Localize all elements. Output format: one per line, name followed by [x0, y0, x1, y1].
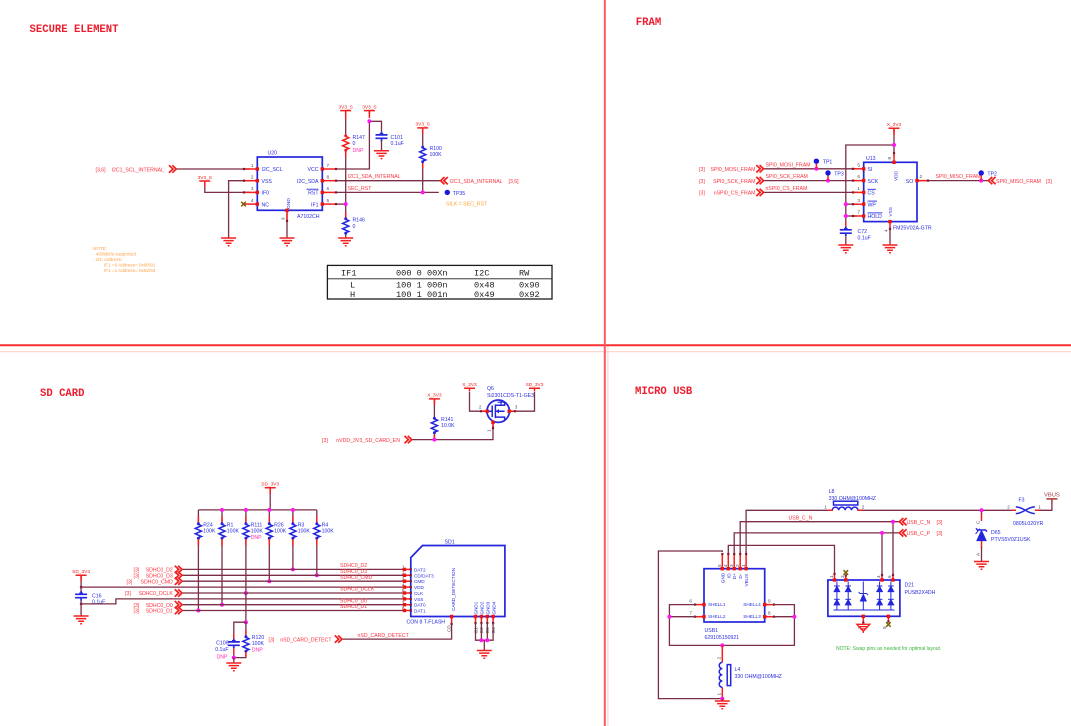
resistor R3 100K [290, 522, 296, 539]
resistor R141 10.0K [431, 417, 437, 434]
junction TP2 [979, 179, 983, 183]
chevron input SDHC0_D3 [175, 572, 182, 579]
svg-text:6: 6 [327, 186, 330, 191]
power SD_3V3 rail [261, 482, 279, 491]
U20 pin 2 stub [243, 179, 259, 182]
wire D65 to ground [981, 541, 983, 548]
svg-text:2: 2 [862, 505, 865, 510]
junction R3/SDHC0_D2 [291, 567, 295, 571]
fuse F3 0805L020YR [1016, 507, 1035, 514]
svg-text:VBUS: VBUS [1044, 493, 1060, 499]
wire C106 to ground node [233, 648, 235, 657]
wire VDD row to connector [81, 586, 404, 588]
svg-text:4: 4 [723, 564, 728, 567]
resistor R146 0 [343, 217, 349, 234]
svg-text:SD CARD: SD CARD [40, 388, 85, 400]
wire I2C1_SDA_INTERNAL net [336, 180, 441, 182]
resistor R120 100K DNP [243, 635, 249, 652]
junction VCC/3V3_S [367, 119, 371, 123]
svg-text:X_3V3: X_3V3 [887, 122, 902, 128]
svg-text:SHELL1: SHELL1 [708, 602, 726, 607]
svg-text:SDHC0_DCLK: SDHC0_DCLK [340, 586, 375, 592]
svg-text:100K: 100K [430, 152, 443, 158]
I2C address table [327, 265, 552, 299]
svg-text:VSS: VSS [414, 597, 423, 602]
ground at D65 [974, 562, 989, 570]
wire ground bus to ground [483, 640, 485, 650]
svg-text:USB_C_N: USB_C_N [907, 520, 931, 526]
svg-text:IF1: IF1 [341, 269, 356, 279]
wire VDD rail down left side [846, 145, 894, 222]
svg-text:SD_3V3: SD_3V3 [72, 569, 90, 575]
wire R24 to bus row [197, 539, 199, 611]
USB1 top pin stub [733, 553, 736, 571]
Q6 pin 3 stub [508, 410, 517, 413]
wire SHELL2 to rail [669, 616, 695, 618]
chevron input SDHC0_DCLK [175, 589, 182, 596]
svg-text:L8: L8 [829, 489, 835, 495]
svg-text:3: 3 [251, 186, 254, 191]
svg-text:SO: SO [906, 179, 914, 185]
wire R146 to ground [345, 234, 347, 238]
wire rail to HOLD pin 7 [846, 215, 857, 217]
svg-text:0x49: 0x49 [474, 290, 495, 300]
svg-text:R24: R24 [203, 522, 213, 528]
power X_3V3 at Q6 [462, 382, 477, 391]
U13 pin 6 stub [852, 179, 866, 182]
resistor R4 100K [314, 522, 320, 539]
test point TP3 [825, 170, 844, 180]
junction L4/GND loop [720, 697, 724, 701]
svg-text:0.1uF: 0.1uF [215, 647, 228, 653]
U20 pin 5 stub [321, 202, 338, 205]
wire rail to WP pin 3 [846, 203, 857, 205]
chevron input nSD_CARD_DETECT [335, 635, 342, 642]
ESD array D21 PUSB2X4DH [828, 580, 900, 616]
ground at U20 pin 9 [280, 238, 295, 246]
wire VSS row jog to ground net [81, 599, 404, 604]
svg-text:3V3_S: 3V3_S [198, 175, 212, 181]
svg-text:R26: R26 [274, 522, 284, 528]
svg-text:SEC_RST: SEC_RST [348, 186, 373, 192]
svg-text:[3,6]: [3,6] [509, 179, 520, 185]
svg-text:IF1 =1 Address= 0x92/93: IF1 =1 Address= 0x92/93 [104, 268, 156, 273]
chevron input SDHC0_D1 [175, 607, 182, 614]
wire USB_C_P to D21 pin 4 [881, 533, 883, 575]
capacitor C72 0.1uF [840, 227, 852, 237]
resistor R147 0 DNP [343, 134, 349, 151]
U20 pin 9 GND stub [285, 209, 288, 222]
junction USB_C_P/D21 [880, 531, 884, 535]
svg-text:SECURE ELEMENT: SECURE ELEMENT [30, 24, 120, 36]
wire shell rails [669, 605, 794, 646]
svg-text:6: 6 [887, 575, 892, 578]
no-connect X on U20 pin 4 [241, 202, 246, 207]
test point TP35 [445, 190, 466, 197]
junction X_3V3 rail [892, 143, 896, 147]
svg-text:C16: C16 [92, 593, 102, 599]
chevron input nSPI0_CS_FRAM [756, 189, 763, 196]
svg-text:ID: ID [726, 573, 731, 578]
wire nSPI0_CS_FRAM to CS [763, 191, 857, 193]
svg-text:SD_3V3: SD_3V3 [261, 482, 279, 488]
svg-text:2: 2 [479, 405, 482, 410]
wire R4 to bus row [316, 539, 318, 575]
wire 3V3_S to R100 [422, 131, 424, 147]
D21 pin 5 stub [887, 615, 890, 623]
resistor R24 100K [195, 522, 201, 539]
svg-text:SPI0_SCK_FRAM: SPI0_SCK_FRAM [766, 174, 808, 180]
svg-text:X_3V3: X_3V3 [427, 393, 442, 399]
SD1 GND3 pin stub [486, 615, 489, 624]
svg-text:VSS: VSS [888, 207, 893, 216]
svg-text:nSD_CARD_DETECT: nSD_CARD_DETECT [280, 638, 332, 644]
svg-text:2: 2 [735, 564, 740, 567]
wire to C106 [234, 622, 246, 638]
USB1 top pin stub [721, 553, 724, 571]
wire R1 to bus row [221, 539, 223, 605]
notes text block [93, 246, 156, 273]
chevron output I2C1_SDA_INTERNAL [441, 177, 448, 184]
USB1 top pin stub [744, 553, 747, 571]
SD1 pin stub VSS [403, 597, 412, 600]
svg-text:SCK: SCK [868, 179, 879, 185]
wire rail to R1 [221, 510, 223, 523]
svg-text:nVDD_3V3_SD_CARD_EN: nVDD_3V3_SD_CARD_EN [336, 438, 400, 444]
ground at C101 [374, 151, 389, 159]
svg-text:GND1: GND1 [474, 601, 479, 614]
svg-text:1: 1 [1038, 505, 1041, 510]
ground at VSS [221, 238, 236, 246]
wire junction to R146 [345, 204, 347, 218]
svg-text:SPI0_MOSI_FRAM: SPI0_MOSI_FRAM [766, 162, 811, 168]
svg-text:330 OHM@100MHZ: 330 OHM@100MHZ [829, 496, 876, 502]
U20 pin 6 stub [321, 191, 338, 194]
svg-text:100K: 100K [298, 529, 311, 535]
junction on pull-up rail [244, 508, 248, 512]
junction ground bus [479, 638, 483, 642]
svg-text:100 1 001n: 100 1 001n [396, 290, 448, 300]
svg-text:SPI0_MISO_FRAM: SPI0_MISO_FRAM [996, 179, 1041, 185]
svg-text:FRAM: FRAM [636, 17, 661, 29]
svg-text:629105150921: 629105150921 [705, 635, 740, 641]
svg-text:[3,6]: [3,6] [96, 167, 107, 173]
chevron input SDHC0_CMD [175, 578, 182, 585]
svg-text:nSPI0_CS_FRAM: nSPI0_CS_FRAM [766, 186, 808, 192]
svg-text:SDHC0_DCLK: SDHC0_DCLK [138, 591, 173, 597]
svg-text:SDHC0_D1: SDHC0_D1 [146, 609, 173, 615]
svg-text:RST: RST [308, 191, 319, 197]
svg-text:3V3_S: 3V3_S [415, 122, 429, 128]
svg-text:7: 7 [327, 163, 330, 168]
svg-text:R141: R141 [441, 417, 454, 423]
svg-text:C101: C101 [391, 135, 404, 141]
sheet border faint horizontal line [0, 351, 1071, 353]
svg-text:1: 1 [829, 575, 834, 578]
svg-text:PTVS5V0Z1USK: PTVS5V0Z1USK [991, 537, 1031, 543]
chevron output SPI0_MISO_FRAM [988, 177, 995, 184]
svg-text:6: 6 [689, 598, 692, 603]
wire junction to R120 [245, 622, 247, 636]
D21 pin 1 stub [833, 573, 836, 582]
svg-text:Si2301CDS-T1-GE3: Si2301CDS-T1-GE3 [487, 393, 534, 399]
svg-text:1: 1 [251, 163, 254, 168]
sheet border faint vertical line [607, 345, 609, 726]
svg-text:- 400kbit/s supported: - 400kbit/s supported [93, 252, 136, 257]
junction on pull-up rail [220, 508, 224, 512]
svg-text:I2C1_SDA_INTERNAL: I2C1_SDA_INTERNAL [348, 174, 401, 180]
svg-text:100K: 100K [274, 529, 287, 535]
inductor L8 330 OHM@100MHZ [832, 501, 858, 510]
power 3V3_S at IF0 [198, 175, 212, 184]
svg-text:330 OHM@100MHZ: 330 OHM@100MHZ [735, 674, 782, 680]
wire SDHC0_D0 row [182, 604, 405, 606]
svg-text:RW: RW [519, 269, 530, 279]
U13 pin 2 stub [915, 179, 929, 182]
svg-text:R146: R146 [353, 217, 366, 223]
svg-text:3: 3 [840, 575, 845, 578]
wire SD1 ground bus [476, 623, 494, 640]
wire L8 to F3 [858, 509, 1016, 511]
SD1 pin stub DAT2 [403, 568, 412, 571]
svg-text:NC: NC [262, 202, 270, 208]
junction R1/SDHC0_D0 [220, 603, 224, 607]
svg-text:R1: R1 [227, 522, 234, 528]
SD1 pin stub CMD [403, 580, 412, 583]
power SD_3V3 at Q6 [526, 382, 544, 391]
svg-text:GND: GND [286, 198, 292, 209]
svg-text:2: 2 [251, 175, 254, 180]
junction SHELL2 rail [667, 615, 671, 619]
wire VCC pin 7 to 3V3_S [336, 121, 369, 169]
wire rail to R4 [316, 510, 318, 523]
svg-text:R100: R100 [430, 146, 443, 152]
wire nVDD_3V3_SD_CARD_EN to Q6 gate [412, 422, 493, 439]
junction rail/WP [844, 202, 848, 206]
junction ground bus 2 [485, 638, 489, 642]
svg-text:1: 1 [487, 429, 492, 432]
resistor R1 100K [219, 522, 225, 539]
ground at C106/R120 [226, 663, 241, 671]
svg-text:CARD_DETECTION: CARD_DETECTION [451, 568, 456, 611]
transistor Q6 Si2301CDS-T1-GE3 P-MOSFET [487, 400, 509, 423]
svg-text:8: 8 [768, 611, 771, 616]
svg-text:C106: C106 [216, 641, 229, 647]
svg-text:3: 3 [729, 564, 734, 567]
wire 3V3_S to IF0 pin 3 [205, 186, 250, 192]
svg-text:SDHC0_D1: SDHC0_D1 [340, 604, 367, 610]
wire SDHC0_CMD row [182, 580, 405, 582]
connector USB1 629105150921 micro USB [704, 569, 765, 641]
svg-text:1: 1 [741, 564, 746, 567]
svg-text:IF1: IF1 [311, 202, 319, 208]
junction C106/R120 top [244, 620, 248, 624]
svg-text:R147: R147 [353, 135, 366, 141]
svg-text:CON 8 T-FLASH: CON 8 T-FLASH [407, 620, 446, 626]
svg-text:DAT1: DAT1 [414, 609, 426, 614]
U20 pin 7 stub [321, 167, 338, 170]
power flag VBUS [1044, 493, 1060, 503]
wire GND2 drop [480, 623, 482, 640]
svg-text:6: 6 [857, 174, 860, 179]
svg-text:5: 5 [327, 198, 330, 203]
U20 pin 4 stub [243, 202, 259, 205]
SD1 GND1 pin stub [474, 615, 477, 624]
wire SDHC0_D2 row [182, 568, 405, 570]
junction R111/SDHC0_DCLK [244, 591, 248, 595]
junction R24/SDHC0_D1 [196, 609, 200, 613]
svg-text:D-: D- [738, 573, 743, 578]
chevron input nVDD_3V3_SD_CARD_EN [405, 436, 412, 443]
wire SO to SPI0_MISO_FRAM port [917, 180, 988, 182]
svg-text:D21: D21 [905, 583, 915, 589]
svg-text:R120: R120 [252, 635, 265, 641]
wire USB_C_N net [740, 522, 899, 553]
svg-text:CMD: CMD [414, 579, 425, 584]
wire VBUS to D65 [981, 513, 983, 521]
power 3V3_S at R147 [338, 104, 352, 113]
wire 3V3_S to R147 [345, 117, 347, 135]
svg-text:H: H [350, 290, 355, 300]
svg-text:L4: L4 [735, 667, 741, 673]
svg-text:I2C1_SDA_INTERNAL: I2C1_SDA_INTERNAL [450, 179, 503, 185]
svg-text:SI: SI [868, 167, 873, 173]
USB1 SHELL3 stub [763, 615, 775, 618]
power 3V3_S at VCC [362, 104, 376, 113]
svg-text:PUSB2X4DH: PUSB2X4DH [905, 590, 936, 596]
svg-text:nSPI0_CS_FRAM: nSPI0_CS_FRAM [714, 191, 756, 197]
svg-text:SD1: SD1 [445, 540, 455, 546]
USB1 SHELL2 stub [694, 615, 706, 618]
chevron output USB_C_N [899, 518, 906, 525]
svg-text:9: 9 [281, 217, 286, 220]
resistor R111 100K DNP [243, 522, 249, 539]
junction C106/R120 bottom [232, 656, 236, 660]
junction R141/EN [432, 438, 436, 442]
svg-text:DNP: DNP [251, 535, 262, 541]
svg-text:3V3_S: 3V3_S [338, 104, 352, 110]
junction VBUS/D65 [980, 508, 984, 512]
svg-text:1: 1 [717, 693, 722, 696]
svg-text:TP35: TP35 [453, 191, 466, 197]
wire SDHC0_D3 row [182, 574, 405, 576]
U20 pin 1 stub [243, 167, 259, 170]
wire DCLK node down to R120/C106 [245, 593, 247, 622]
svg-text:0.1uF: 0.1uF [858, 236, 871, 242]
svg-text:R3: R3 [298, 522, 305, 528]
SD1 pin stub CLK [403, 591, 412, 594]
resistor R100 100K [420, 146, 426, 163]
test point TP1 [814, 159, 833, 169]
wire to USB ground [721, 699, 723, 701]
svg-text:nSD_CARD_DETECT: nSD_CARD_DETECT [358, 633, 410, 639]
svg-text:SPI0_MISO_FRAM: SPI0_MISO_FRAM [936, 174, 981, 180]
junction TP3 [826, 179, 830, 183]
power 3V3_S at R100 [415, 122, 429, 131]
svg-text:R111: R111 [251, 522, 263, 528]
ground at USB1 [715, 701, 730, 709]
junction SHELL3 rail [792, 615, 796, 619]
chevron input SDHC0_D2 [175, 566, 182, 573]
wire GND loop [658, 551, 722, 699]
wire USB_C_P net [734, 533, 899, 553]
svg-text:5: 5 [717, 564, 722, 567]
wire SPI0_SCK_FRAM to SCK [763, 180, 857, 182]
svg-text:I2C: I2C [474, 269, 489, 279]
svg-text:- I2C Address:: - I2C Address: [93, 257, 122, 262]
svg-text:000 0 00Xn: 000 0 00Xn [396, 269, 448, 279]
power X_3V3 FRAM [887, 122, 902, 131]
svg-text:NOTE:: NOTE: [93, 246, 107, 251]
wire ID to D21 pin 1 [728, 545, 834, 574]
svg-text:1: 1 [824, 505, 827, 510]
SD1 pin stub DAT0 [403, 603, 412, 606]
D21 pin 6 stub [891, 574, 894, 582]
svg-text:3V3_S: 3V3_S [362, 104, 376, 110]
svg-text:CD: CD [447, 625, 452, 632]
svg-text:X_3V3: X_3V3 [462, 382, 477, 388]
svg-text:TP3: TP3 [834, 171, 844, 177]
wire SDHC0_D1 row [182, 610, 405, 612]
svg-text:[3]: [3] [125, 591, 131, 597]
power SD_3V3 at C16 [72, 569, 90, 578]
svg-text:TP2: TP2 [987, 171, 997, 177]
svg-text:USB_C_N: USB_C_N [789, 516, 813, 522]
main vertical red divider [604, 0, 606, 726]
wire R120 to ground node [234, 652, 246, 658]
svg-text:8: 8 [887, 157, 892, 160]
svg-text:SDHC0_CMD: SDHC0_CMD [340, 575, 373, 581]
wire VSS pin 4 to ground [889, 227, 891, 245]
svg-text:2: 2 [1007, 505, 1010, 510]
SD1 pin stub VDD [403, 585, 412, 588]
wire net I2C1_SCL_INTERNAL to pin 1 [176, 168, 251, 170]
junction SEC_RST/R100 [421, 190, 425, 194]
wire VSS pin 2 to ground [229, 181, 258, 238]
U20 pin 8 stub [321, 179, 338, 182]
junction R26/SDHC0_CMD [267, 579, 271, 583]
capacitor C16 0.1uF [75, 591, 87, 601]
svg-text:A7102CH: A7102CH [297, 214, 320, 220]
svg-text:VBUS: VBUS [744, 574, 749, 587]
D21 pin 4 stub [880, 574, 883, 582]
test point TP2 [979, 170, 998, 180]
USB1 SHELL4 stub [763, 603, 775, 606]
svg-text:FM25V02A-GTR: FM25V02A-GTR [893, 226, 932, 232]
main horizontal red divider [0, 344, 1071, 346]
wire rail to R3 [292, 510, 294, 523]
svg-text:IF0: IF0 [262, 191, 270, 197]
svg-text:I2C1_SCL_INTERNAL: I2C1_SCL_INTERNAL [112, 167, 165, 173]
USB1 top pin stub [739, 553, 742, 571]
IC U13 FM25V02A-GTR FRAM [864, 156, 932, 232]
USB1 top pin stub [727, 553, 730, 571]
U13 pin 1 stub [852, 191, 866, 194]
wire F3 to VBUS flag [1035, 502, 1052, 510]
wire SDHC0_DCLK row [182, 592, 405, 594]
svg-text:[3]: [3] [269, 638, 275, 644]
svg-text:100K: 100K [251, 529, 264, 535]
svg-text:F3: F3 [1019, 498, 1025, 504]
wire GND pin 9 to ground [286, 210, 288, 238]
svg-text:TP1: TP1 [823, 160, 833, 166]
svg-text:VDD: VDD [894, 170, 899, 181]
svg-text:SPI0_MOSI_FRAM: SPI0_MOSI_FRAM [711, 167, 756, 173]
capacitor C101 0.1uF [376, 132, 388, 142]
svg-text:Q6: Q6 [487, 386, 494, 392]
svg-text:4: 4 [884, 229, 889, 232]
SD1 CD pin stub [450, 615, 453, 625]
